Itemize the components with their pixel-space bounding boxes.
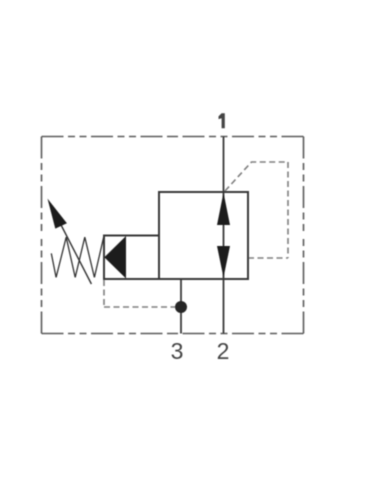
svg-text:3: 3	[171, 338, 184, 364]
svg-text:2: 2	[217, 338, 230, 364]
